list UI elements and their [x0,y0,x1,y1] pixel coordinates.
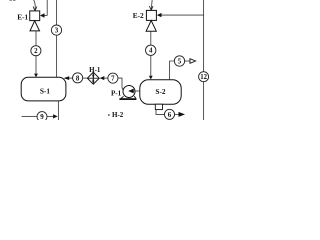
wire node 2 to S-1 [35,56,37,74]
wire into E-2 top (slanted) [151,0,152,10]
filled arrowhead into outlet wire [53,114,58,118]
filled arrowhead into S-1 right [64,76,70,80]
node 5 [174,56,184,66]
open arrowhead into E-2 top [149,6,153,10]
filled arrowhead into S-2 top [149,76,153,80]
wire into E-1 top (curved) [33,0,35,11]
node 9 [37,112,47,122]
heater E-1 [30,11,40,21]
svg-text:9: 9 [40,114,44,120]
filled arrowhead into E-1 right [40,13,45,17]
wire E-2 to node 4 [150,31,152,45]
wire node 4 to S-2 [150,56,152,76]
wire top to node 3 [56,0,58,25]
open arrowhead stream 5 [190,59,196,64]
node 7 [108,73,118,83]
svg-text:8: 8 [76,75,80,82]
svg-text:5: 5 [178,58,182,65]
svg-text:E-1: E-1 [17,13,28,22]
filled arrowhead into pump [128,89,134,94]
pump P-1 [123,86,135,98]
open triangle below E-1 [30,21,40,31]
wire node 9 to junction [47,115,53,117]
filled arrowhead stream 6 [179,112,186,117]
wire right vertical through node 12 [203,0,205,72]
wire to node 8 [69,77,73,79]
wire S-2 top to node 5 [170,61,175,80]
svg-text:6: 6 [168,112,172,119]
svg-text:3: 3 [55,28,59,35]
filled arrowhead into S-1 top [34,74,38,78]
node 3 [51,25,61,35]
heat exchanger H-1 [87,72,99,84]
vessel S-1 [21,77,66,101]
filled arrowhead into H-1 right [100,76,105,80]
node 6 [164,109,174,119]
wire node 6 out [175,113,179,115]
top-left cut-off mark [10,0,12,1]
wire bottom-left to node 9 [22,115,38,117]
open triangle below E-2 [146,21,156,32]
wire node 7 to pump P-1 [118,78,125,90]
H-2 label (symbol cut off below) [108,114,110,116]
wire from right into E-2 [161,14,203,16]
svg-text:4: 4 [149,48,153,55]
wire to node 7 [104,77,108,79]
wire from top into E-1 right [46,0,48,16]
node 8 [73,73,83,83]
vessel S-2 [140,80,181,104]
svg-text:S-2: S-2 [155,87,165,96]
wire node 3 to S-1 top [56,35,58,77]
svg-text:2: 2 [34,48,38,55]
svg-text:H-2: H-2 [112,111,124,119]
svg-text:7: 7 [111,76,115,83]
node 4 [146,45,156,55]
svg-text:P-1: P-1 [111,89,122,97]
svg-text:E-2: E-2 [133,11,144,20]
filled arrowhead into E-2 right [157,13,162,17]
wire S-2 to pump [133,90,140,92]
wire nozzle to node 6 [156,110,164,115]
wire node 8 to H-1 [83,77,88,79]
wire node 5 out [185,60,190,62]
node 12 [199,72,209,82]
open arrowhead into E-1 top [33,7,37,11]
svg-text:12: 12 [200,74,207,81]
svg-text:H-1: H-1 [89,66,101,74]
heater E-2 [146,10,156,20]
node 2 [31,46,41,56]
wire S-1 bottom outlet [57,101,59,120]
svg-text:S-1: S-1 [40,86,50,95]
wire E-1 to node 2 [35,31,37,46]
S-2 bottom nozzle [155,104,162,109]
